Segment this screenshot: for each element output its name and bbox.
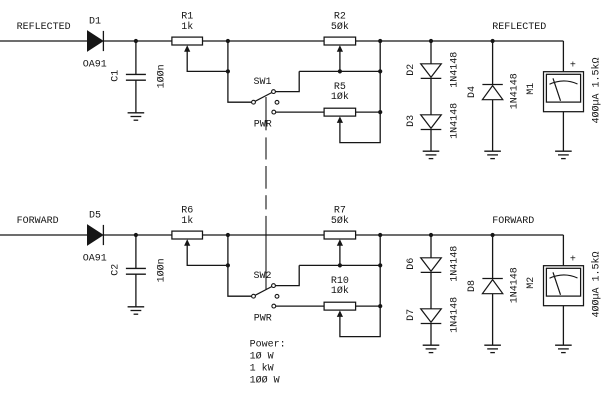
- wire R7 wiper: [339, 241, 341, 266]
- wire diode to ground: [492, 294, 494, 345]
- mechanical gang link SW1-SW2 (dashed): [265, 97, 267, 290]
- wire: [203, 234, 324, 236]
- diode D2 1N4148: [421, 64, 442, 79]
- wire to capacitor: [135, 41, 137, 74]
- wire: [103, 234, 171, 236]
- ground at D3: [423, 151, 440, 158]
- wire: [103, 40, 171, 42]
- svg-text:1ØØn: 1ØØn: [156, 64, 168, 88]
- wire capacitor to ground: [135, 274, 137, 306]
- svg-text:D1: D1: [89, 17, 101, 28]
- switch SW1 1-pole 3-throw: [252, 90, 279, 114]
- svg-text:5Øk: 5Øk: [331, 215, 349, 227]
- diode D8 1N4148: [482, 279, 502, 294]
- potentiometer R1 1k: [172, 37, 203, 52]
- junction node: [338, 69, 342, 73]
- junction node: [378, 263, 382, 267]
- wire diode to ground: [430, 130, 432, 152]
- svg-text:1 kW: 1 kW: [250, 362, 274, 374]
- ground at C2: [128, 307, 145, 314]
- wire diode to ground: [492, 100, 494, 151]
- wire to meter: [562, 41, 564, 72]
- potentiometer R10 10k: [324, 302, 356, 317]
- wire meter to ground: [562, 112, 564, 151]
- svg-text:PWR: PWR: [254, 119, 272, 130]
- svg-text:PWR: PWR: [254, 313, 272, 324]
- svg-text:1N4148: 1N4148: [450, 297, 461, 333]
- svg-text:1ØØn: 1ØØn: [156, 258, 168, 282]
- wire to switch common: [228, 41, 252, 102]
- wire input: [0, 234, 87, 236]
- wire: [356, 40, 564, 42]
- capacitor C1 100n: [126, 74, 146, 80]
- wire to D8: [492, 235, 494, 279]
- junction node: [429, 233, 433, 237]
- ground at D8: [484, 345, 501, 352]
- svg-text:M2: M2: [526, 277, 537, 289]
- svg-text:Power:: Power:: [250, 340, 286, 351]
- svg-text:1Øk: 1Øk: [331, 285, 349, 297]
- junction node: [378, 69, 382, 73]
- wire wiper bus: [299, 70, 380, 72]
- wire to capacitor: [135, 235, 137, 268]
- junction node: [134, 39, 138, 43]
- svg-text:1N4148: 1N4148: [450, 52, 461, 88]
- wire between diodes: [430, 78, 432, 114]
- diode D4 1N4148: [482, 85, 502, 100]
- potentiometer R7 50k: [324, 231, 356, 246]
- wire R1 wiper: [187, 47, 228, 72]
- svg-text:D3: D3: [406, 115, 417, 127]
- diode D5 OA91: [87, 225, 103, 245]
- svg-text:D8: D8: [467, 280, 478, 292]
- svg-text:5Øk: 5Øk: [331, 21, 349, 33]
- svg-text:REFLECTED: REFLECTED: [17, 22, 71, 33]
- wire capacitor to ground: [135, 80, 137, 112]
- ground at C1: [128, 113, 145, 120]
- svg-text:SW2: SW2: [254, 271, 272, 282]
- wire R10 to bus: [356, 305, 381, 307]
- svg-text:1k: 1k: [181, 215, 193, 227]
- junction node: [134, 233, 138, 237]
- svg-text:1Øk: 1Øk: [331, 91, 349, 103]
- svg-text:REFLECTED: REFLECTED: [492, 22, 546, 33]
- wire between diodes: [430, 272, 432, 308]
- wire to switch common: [228, 235, 252, 296]
- svg-text:SW1: SW1: [254, 77, 272, 88]
- ground at M1: [555, 151, 572, 158]
- ground at M2: [555, 345, 572, 352]
- junction node: [491, 39, 495, 43]
- svg-text:D4: D4: [467, 86, 478, 98]
- svg-text:1ØØ W: 1ØØ W: [250, 374, 280, 386]
- junction node: [378, 39, 382, 43]
- wire to D2: [430, 41, 432, 64]
- junction node: [378, 233, 382, 237]
- wire input: [0, 40, 87, 42]
- junction node: [226, 39, 230, 43]
- svg-text:+: +: [570, 61, 576, 72]
- diode D6 1N4148: [421, 258, 442, 273]
- wire R5 to bus: [356, 111, 381, 113]
- wire range bus: [340, 41, 380, 143]
- svg-text:1N4148: 1N4148: [509, 73, 520, 109]
- wire switch throw 1: [276, 265, 300, 285]
- junction node: [378, 304, 382, 308]
- junction node: [338, 263, 342, 267]
- svg-text:FORWARD: FORWARD: [17, 216, 59, 227]
- meter M2 moving-coil: [544, 266, 584, 306]
- svg-text:C2: C2: [111, 264, 122, 276]
- potentiometer R5 10k: [324, 108, 356, 123]
- wire: [203, 40, 324, 42]
- diode D1 OA91: [87, 31, 103, 51]
- junction node: [226, 69, 230, 73]
- svg-text:M1: M1: [526, 83, 537, 95]
- diode D7 1N4148: [421, 309, 442, 324]
- svg-text:4ØØµA 1.5kΩ: 4ØØµA 1.5kΩ: [590, 251, 602, 317]
- svg-text:1Ø W: 1Ø W: [250, 351, 274, 363]
- wire meter to ground: [562, 306, 564, 345]
- junction node: [491, 233, 495, 237]
- svg-text:FORWARD: FORWARD: [492, 216, 534, 227]
- junction node: [226, 233, 230, 237]
- junction node: [378, 110, 382, 114]
- svg-text:OA91: OA91: [83, 60, 107, 71]
- svg-text:OA91: OA91: [83, 254, 107, 265]
- svg-text:D2: D2: [406, 64, 417, 76]
- capacitor C2 100n: [126, 268, 146, 274]
- ground at D4: [484, 151, 501, 158]
- wire range bus: [340, 235, 380, 337]
- wire diode to ground: [430, 324, 432, 346]
- svg-text:D5: D5: [89, 211, 101, 222]
- wire switch throw 3 to R10: [276, 305, 324, 307]
- svg-text:1k: 1k: [181, 21, 193, 33]
- wire wiper bus: [299, 264, 380, 266]
- wire: [356, 234, 564, 236]
- diode D3 1N4148: [421, 115, 442, 130]
- wire switch throw 3 to R5: [276, 111, 324, 113]
- svg-text:1N4148: 1N4148: [509, 267, 520, 303]
- wire to D4: [492, 41, 494, 85]
- ground at D7: [423, 345, 440, 352]
- svg-text:4ØØµA 1.5kΩ: 4ØØµA 1.5kΩ: [590, 57, 602, 123]
- svg-text:D6: D6: [406, 258, 417, 270]
- wire to meter: [562, 235, 564, 266]
- wire switch throw 1: [276, 71, 300, 91]
- potentiometer R2 50k: [324, 37, 356, 52]
- label Power legend: [250, 340, 286, 387]
- wire to D6: [430, 235, 432, 258]
- junction node: [226, 263, 230, 267]
- svg-text:1N4148: 1N4148: [450, 246, 461, 282]
- svg-text:+: +: [570, 255, 576, 266]
- svg-text:C1: C1: [111, 70, 122, 82]
- switch SW2 1-pole 3-throw: [252, 284, 279, 308]
- potentiometer R6 1k: [172, 231, 203, 246]
- svg-text:1N4148: 1N4148: [450, 103, 461, 139]
- wire R6 wiper: [187, 241, 228, 266]
- meter M1 moving-coil: [544, 72, 584, 112]
- wire R2 wiper: [339, 47, 341, 72]
- junction node: [429, 39, 433, 43]
- svg-text:D7: D7: [406, 309, 417, 321]
